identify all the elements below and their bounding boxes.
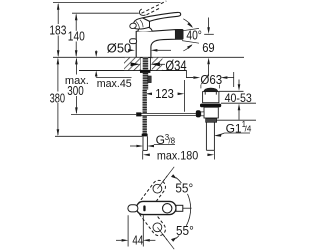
lever raised (dashed) — [142, 1, 167, 15]
hose end fitting — [142, 134, 148, 137]
svg-text:300: 300 — [67, 84, 84, 98]
dimension 123 (rod length) — [145, 80, 184, 112]
deck bottom line — [79, 70, 187, 72]
dimension 183 — [57, 3, 60, 57]
swivel arc 55deg — [176, 178, 191, 239]
washer under deck — [140, 70, 150, 73]
raised lever grip hook — [139, 9, 145, 15]
threaded shank — [143, 57, 149, 89]
max.300 bottom reference line — [71, 114, 136, 116]
lever (rest position) — [143, 12, 181, 21]
dimension Ø50 (base) — [128, 49, 171, 52]
svg-text:G1: G1 — [226, 121, 242, 135]
drain flange — [203, 92, 219, 103]
rod left end fitting — [136, 112, 141, 116]
dimension 380 — [57, 58, 60, 137]
slot — [143, 205, 145, 211]
svg-text:Ø50: Ø50 — [107, 40, 131, 55]
dimension 44 — [116, 215, 155, 246]
svg-text:69: 69 — [202, 41, 215, 55]
svg-text:55°: 55° — [176, 224, 194, 238]
dashed handle position lower — [134, 199, 172, 244]
spray angle 40deg fan — [182, 19, 199, 51]
380 bottom reference line — [55, 135, 142, 137]
flexible hose — [143, 90, 147, 114]
svg-text:40-53: 40-53 — [225, 91, 252, 105]
seal ring — [200, 104, 221, 108]
collar nut — [206, 119, 217, 123]
svg-text:183: 183 — [49, 24, 66, 38]
extension line top (raised lever height) — [53, 2, 161, 4]
dimension 140 — [75, 13, 78, 57]
svg-text:140: 140 — [68, 29, 85, 43]
dimension 69 (spout height) — [204, 33, 214, 35]
deck top reference line — [53, 56, 244, 58]
svg-text:G: G — [156, 133, 165, 147]
aerator stub — [176, 205, 183, 211]
svg-text:Ø34: Ø34 — [165, 58, 186, 74]
svg-text:55°: 55° — [175, 181, 193, 195]
dimension max.180 — [143, 151, 215, 160]
svg-text:Ø63: Ø63 — [200, 72, 222, 87]
spout circle — [163, 204, 172, 213]
supply pipe G3/8 — [143, 136, 147, 150]
body and spout outline — [136, 30, 175, 58]
svg-text:max.45: max.45 — [97, 78, 132, 90]
lever grip front — [133, 18, 150, 29]
label G3/8 — [130, 144, 175, 147]
dimension max.300 — [75, 58, 78, 115]
cartridge dome — [138, 27, 152, 31]
pull-rod tab — [128, 205, 138, 212]
clamp screw — [148, 76, 151, 83]
dimension Ø34 (hole) — [131, 62, 140, 66]
rod knob on waste — [196, 110, 201, 117]
extension line lever rest height — [72, 12, 139, 14]
tailpipe G1 1/4 — [206, 122, 214, 150]
svg-text:40°: 40° — [186, 28, 202, 42]
dimension max.45 (deck thickness) — [95, 50, 132, 77]
svg-text:380: 380 — [50, 91, 66, 105]
faucet body top view — [137, 201, 177, 214]
aerator — [176, 29, 184, 39]
pop-up rod (horizontal) — [141, 113, 196, 115]
label G1 1/4 — [214, 133, 250, 137]
svg-text:/8: /8 — [168, 136, 175, 145]
svg-text:/4: /4 — [245, 125, 252, 134]
deck hatching — [124, 58, 140, 70]
svg-text:max.180: max.180 — [157, 149, 199, 163]
dashed handle position upper — [134, 172, 172, 217]
svg-text:44: 44 — [132, 234, 143, 248]
drain dome cap — [204, 88, 218, 91]
pop-up knob at back — [130, 39, 137, 44]
hole edges — [139, 57, 141, 70]
waste body — [204, 107, 218, 118]
dimension Ø63 — [186, 72, 234, 88]
svg-text:123: 123 — [155, 87, 174, 101]
dimension 40-53 — [217, 80, 256, 121]
